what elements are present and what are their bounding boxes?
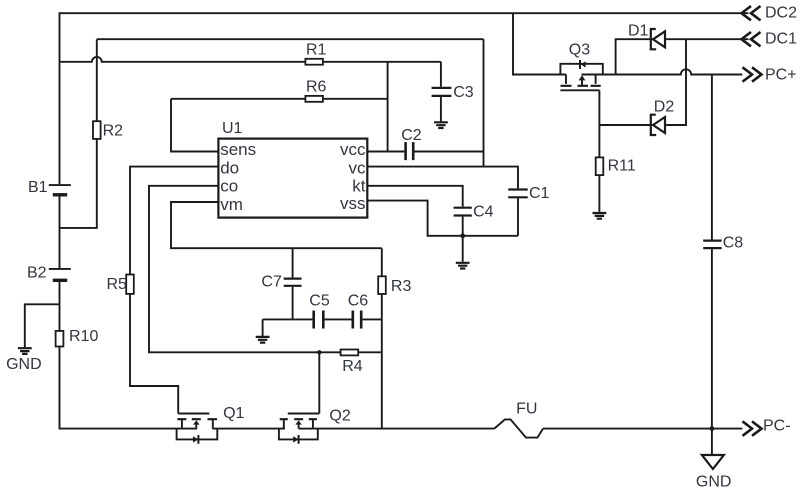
wire: C7 verticals [292, 248, 294, 319]
svg-text:GND: GND [696, 473, 732, 490]
wire: left rail top section (DC2 line down to B1) [59, 12, 61, 184]
diode D2 [651, 115, 665, 135]
transistor Q1 [177, 414, 217, 444]
connector chevron DC2 [742, 6, 761, 20]
wire: kt pin line to C4 [367, 186, 462, 207]
wire: C8 vertical from PC+ to bottom rail [711, 75, 713, 429]
svg-text:Q1: Q1 [223, 405, 244, 422]
junction node at C4 bottom [460, 233, 465, 238]
resistor R2 [93, 121, 101, 139]
svg-text:co: co [220, 176, 238, 195]
ground symbol below C4 node [456, 263, 470, 269]
svg-text:C3: C3 [453, 84, 474, 101]
capacitor C7 [284, 279, 302, 286]
ground symbol below R11 [593, 213, 607, 219]
wire: bottom rail fuse to PC- [543, 428, 742, 430]
svg-text:D2: D2 [654, 99, 675, 116]
wire: C4 bottom vertical [462, 217, 464, 236]
svg-text:R6: R6 [306, 79, 327, 96]
svg-text:R1: R1 [306, 42, 327, 59]
capacitor C8 [703, 241, 721, 249]
wire: D2 vertical from DC1 line and D2 line to Q3 gate [599, 39, 686, 125]
resistor R11 [596, 157, 604, 175]
junction node at PC- / C8 [710, 426, 715, 431]
resistor R10 [56, 331, 64, 347]
svg-text:kt: kt [352, 176, 366, 195]
wire: Q2 gate vertical [318, 352, 320, 413]
ground symbol below C3 [434, 122, 448, 128]
battery B2 [49, 269, 71, 280]
transistor Q2 body-diode loop [279, 429, 318, 440]
wire: R2 branch from second rail to left rail [60, 39, 97, 228]
resistor R6 [305, 96, 323, 102]
wire: vertical drop x=483.5 from second rail to vc line [483, 39, 485, 166]
svg-text:GND: GND [6, 356, 42, 373]
wire: DC2 drop to Q3 [513, 13, 566, 74]
svg-text:R2: R2 [103, 123, 124, 140]
resistor R4 [341, 350, 359, 356]
svg-text:C7: C7 [261, 273, 282, 290]
wire: R3 vertical to bottom rail [381, 248, 383, 428]
svg-text:vss: vss [340, 194, 366, 213]
capacitor C3 [432, 88, 452, 96]
ground symbol left of C5 line [256, 337, 270, 343]
svg-text:D1: D1 [628, 23, 649, 40]
junction node at co/R4/Q2 gate [317, 350, 321, 354]
transistor Q2 [280, 414, 320, 444]
svg-text:R5: R5 [107, 276, 128, 293]
wire: co pin route to R4 line [149, 186, 381, 352]
svg-text:C5: C5 [309, 293, 330, 310]
svg-text:vc: vc [349, 159, 367, 178]
transistor Q3 body-diode loop [560, 64, 602, 75]
wire: bottom rail Q2 internal segment [299, 428, 313, 430]
wire: R6 to sens pin link [171, 99, 218, 152]
svg-text:R4: R4 [342, 358, 363, 375]
IC U1 box [218, 139, 367, 218]
svg-text:C4: C4 [473, 203, 494, 220]
wire: second rail from R2 top to vcc drop [97, 38, 484, 40]
wire: bottom rail Q2 to fuse [313, 428, 494, 430]
svg-text:DC2: DC2 [765, 4, 797, 21]
resistor R5 [126, 275, 134, 294]
fuse FU zigzag [494, 419, 543, 437]
svg-text:B1: B1 [28, 179, 48, 196]
svg-text:Q2: Q2 [329, 408, 350, 425]
wire: vc pin line to C1 [367, 167, 518, 189]
svg-text:PC-: PC- [763, 417, 791, 434]
wire: do pin route through R5 to Q1 gate [130, 167, 218, 414]
svg-text:C1: C1 [529, 185, 550, 202]
capacitor C5 [314, 311, 324, 329]
wire: C5/C6 line [263, 318, 382, 320]
connector chevron PC+ [743, 67, 762, 81]
ground symbol left (below B2 branch) [18, 348, 32, 354]
svg-text:sens: sens [220, 140, 256, 159]
wire: bottom rail Q1 to Q2 [212, 428, 285, 430]
transistor Q3 [560, 60, 600, 90]
svg-text:C8: C8 [723, 234, 744, 251]
capacitor C6 [353, 311, 361, 329]
connector chevron DC1 [742, 32, 761, 46]
svg-text:C2: C2 [401, 127, 422, 144]
svg-text:PC+: PC+ [765, 66, 797, 83]
svg-text:C6: C6 [348, 293, 369, 310]
wire: vm pin route to R3 top [171, 202, 382, 248]
battery B1 [49, 185, 71, 195]
connector chevron PC- [743, 421, 762, 435]
earth triangle GND at PC- [702, 455, 724, 469]
wire: Q3 source to PC+ with hop over D2 vertical [582, 69, 743, 74]
capacitor C2 [406, 142, 414, 160]
diode D1 [651, 29, 665, 49]
wire: vcc pin line through C2 [367, 151, 483, 153]
svg-text:DC1: DC1 [765, 31, 797, 48]
wire: left rail between B1 and B2 [59, 195, 61, 269]
svg-text:vm: vm [220, 195, 243, 214]
transistor Q1 body-diode loop [177, 429, 218, 440]
wire: vertical x=387.6 from R1 line to vcc line [387, 62, 389, 152]
capacitor C1 [508, 190, 528, 198]
svg-text:U1: U1 [222, 120, 243, 137]
svg-text:R11: R11 [608, 158, 636, 175]
wire: R1 line with hop over R2 branch [60, 57, 441, 62]
wire: C3 branch vertical [440, 62, 442, 122]
wire: D1 branch and DC1 line [616, 39, 749, 74]
capacitor C4 [454, 208, 472, 216]
svg-text:R3: R3 [391, 278, 412, 295]
wire: R6 line [171, 98, 388, 100]
wire: ground stub below C4 node [462, 236, 464, 262]
svg-text:R10: R10 [69, 328, 98, 345]
wire: vss pin route to C4/C1 bottoms [367, 201, 518, 236]
wire: ground stub left of C5 [262, 319, 264, 336]
svg-text:Q3: Q3 [569, 42, 590, 59]
svg-text:vcc: vcc [340, 140, 366, 159]
svg-text:FU: FU [516, 401, 537, 418]
resistor R1 [305, 59, 323, 65]
wire: C1 bottom vertical [517, 198, 519, 235]
wire: Q3 gate chain down through R11 to ground [598, 90, 600, 212]
wire: earth stub below PC- node [711, 429, 713, 455]
resistor R3 [378, 276, 386, 294]
svg-text:do: do [220, 159, 239, 178]
wire: left rail below B2 to bottom rail corner [60, 280, 198, 428]
wire: GND branch left of B2 [25, 304, 60, 347]
wire: DC2 top rail [60, 12, 749, 14]
svg-text:B2: B2 [27, 265, 47, 282]
